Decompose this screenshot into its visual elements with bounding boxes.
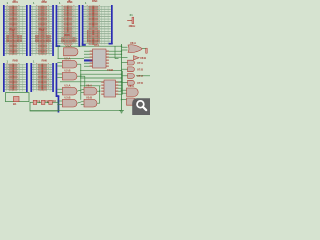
- wire box vertical: [121, 71, 123, 94]
- svg-text:RN5: RN5: [13, 59, 19, 63]
- capacitor C3: [49, 100, 53, 104]
- wire long horizontal: [80, 73, 122, 75]
- wire loop under RN5: [5, 93, 29, 102]
- wire to chip U11: [80, 85, 101, 87]
- svg-text:RN4: RN4: [92, 0, 98, 3]
- wire vertical left: [57, 46, 59, 58]
- wire stub: [81, 103, 84, 105]
- gate U3:B: [62, 99, 77, 107]
- bus horizontal into chip U10: [84, 59, 93, 61]
- wire right stub: [122, 99, 128, 101]
- wire chip out: [106, 50, 122, 52]
- bus right of RN3: [78, 5, 80, 47]
- wire gate1 out: [77, 63, 81, 65]
- junction dots: [39, 46, 122, 103]
- capacitor C2: [41, 100, 45, 104]
- bus elbow col4: [82, 43, 84, 46]
- svg-text:RN2: RN2: [42, 0, 48, 4]
- gate U7:B: [128, 67, 135, 72]
- bus left of RN2: [29, 5, 31, 56]
- wire gate input stub: [57, 73, 62, 75]
- wire gate input stub: [57, 65, 62, 67]
- svg-text:U7:D: U7:D: [137, 81, 143, 85]
- svg-text:B1: B1: [13, 102, 17, 106]
- gate U1:A: [64, 48, 79, 56]
- resistor array RN4: [83, 5, 110, 45]
- gate U7:C: [128, 74, 135, 79]
- bus right of RN2: [52, 5, 54, 56]
- svg-text:U8:A: U8:A: [128, 84, 134, 88]
- wire chip right stub: [116, 93, 123, 95]
- wire gate input stub: [57, 100, 62, 102]
- wire gate input stub: [57, 77, 62, 79]
- wire right stub: [122, 68, 128, 70]
- gate U7:A: [128, 60, 135, 65]
- bus elbow col3: [56, 45, 61, 47]
- bus left of RN5: [3, 63, 5, 92]
- wire gate3 out: [77, 89, 84, 91]
- svg-text:X1: X1: [130, 13, 134, 17]
- bus stub right of RN6 upper: [56, 63, 58, 97]
- gate U5:A: [84, 87, 97, 95]
- wire bottom long: [30, 110, 122, 112]
- wire vertical node: [121, 44, 123, 111]
- wire right stub: [122, 92, 128, 94]
- wire chip stub: [84, 65, 93, 67]
- svg-text:U3:B: U3:B: [64, 96, 70, 100]
- wire vertical link2: [84, 76, 86, 87]
- gate U5:B: [84, 99, 97, 107]
- wire gate2 out: [77, 75, 85, 77]
- svg-text:U5:B: U5:B: [86, 96, 92, 100]
- wire chip right stub: [116, 90, 123, 92]
- svg-text:4MHz: 4MHz: [129, 24, 136, 28]
- wire chip stub: [84, 50, 93, 52]
- bus left of RN3: [56, 5, 58, 47]
- gate U2:B: [62, 72, 77, 80]
- svg-text:U10: U10: [94, 44, 100, 48]
- gate U3:A: [62, 87, 77, 95]
- battery B1: [14, 97, 20, 102]
- gate U6:A: [128, 45, 142, 53]
- wire chip right stub: [116, 84, 123, 86]
- wire gate4 out: [77, 101, 84, 103]
- wire and1 out: [97, 90, 100, 92]
- wire long horizontal: [80, 77, 122, 79]
- gate U6:B: [134, 56, 140, 60]
- resistor array RN3: [57, 5, 78, 44]
- wire chip right stub: [116, 87, 123, 89]
- svg-text:RX8: RX8: [65, 33, 71, 37]
- wire chip right stub: [116, 81, 123, 83]
- wire right stub: [122, 46, 128, 48]
- svg-text:7446: 7446: [107, 68, 113, 72]
- svg-text:U7:C: U7:C: [137, 74, 143, 78]
- gate U2:A: [62, 60, 77, 68]
- svg-text:U2:B: U2:B: [64, 69, 70, 73]
- capacitor C1: [33, 100, 37, 104]
- wire gate input stub: [57, 61, 62, 63]
- bus left of RN4: [82, 5, 84, 44]
- wire chip stub: [84, 56, 93, 58]
- IC U11: [101, 80, 118, 97]
- wire right stub: [122, 61, 128, 63]
- svg-text:U6:B: U6:B: [140, 56, 146, 60]
- crystal X1: [127, 17, 134, 23]
- bus vertical to caps: [58, 96, 60, 113]
- resistor array RN5: [5, 63, 26, 91]
- bus right of RN1: [26, 5, 28, 56]
- wire right stub: [122, 89, 128, 91]
- resistor array RN1: [5, 5, 26, 55]
- wire and2 out: [97, 102, 100, 104]
- bus right of RN4: [111, 5, 113, 44]
- bus right of RN6: [52, 63, 54, 92]
- wire long horizontal low: [60, 81, 122, 83]
- gate U8:B: [127, 98, 137, 105]
- svg-text:U7:A: U7:A: [137, 61, 143, 65]
- wire vertical out: [99, 86, 101, 104]
- wire OR out: [142, 48, 147, 50]
- svg-text:U7:B: U7:B: [137, 68, 143, 72]
- wire gate input stub: [57, 103, 62, 105]
- IC U10: [90, 49, 109, 68]
- svg-text:RN6: RN6: [42, 59, 48, 63]
- svg-text:U5:A: U5:A: [86, 84, 92, 88]
- wire gate input stub: [57, 88, 62, 90]
- wire right stub: [122, 49, 128, 51]
- bus right of RN5: [26, 63, 28, 92]
- wire stub: [81, 91, 84, 93]
- wire right stub: [122, 82, 128, 84]
- svg-text:U2:A: U2:A: [64, 57, 70, 61]
- svg-text:RX8: RX8: [39, 27, 45, 31]
- wire top long: [58, 45, 122, 47]
- wire chip stub: [84, 53, 93, 55]
- wire chip out: [106, 56, 122, 58]
- wire long horizontal: [80, 70, 122, 72]
- svg-text:U6:A: U6:A: [130, 41, 136, 45]
- gate U7:D: [128, 80, 135, 85]
- LED D1: [146, 48, 148, 53]
- bus elbow col4 right: [109, 43, 113, 45]
- wire stub low: [115, 58, 119, 60]
- magnifier overlay icon: [132, 98, 150, 115]
- ground: [119, 110, 124, 113]
- svg-text:RN3: RN3: [67, 0, 73, 4]
- wire caps loop: [30, 102, 58, 111]
- bus elbow lower: [56, 95, 59, 97]
- wire right stub: [122, 75, 128, 77]
- wire chip stub: [84, 62, 93, 64]
- wire gate input stub: [57, 91, 62, 93]
- wire long out right: [136, 75, 150, 77]
- wire vertical link: [80, 64, 82, 100]
- bus left of RN1: [3, 5, 5, 56]
- svg-text:1k: 1k: [13, 0, 16, 2]
- wire vertical drop: [114, 46, 116, 58]
- wire right stub: [122, 57, 128, 59]
- svg-text:RX8: RX8: [10, 27, 16, 31]
- resistor array RN2: [31, 5, 52, 55]
- wire chip out: [106, 53, 122, 55]
- resistor array RN6: [32, 63, 52, 91]
- wire under gate U1A: [58, 58, 85, 60]
- svg-text:U3:A: U3:A: [64, 84, 70, 88]
- bus left of RN6: [30, 63, 32, 92]
- gate U8:A: [127, 88, 139, 96]
- svg-text:U1:A: U1:A: [66, 44, 72, 48]
